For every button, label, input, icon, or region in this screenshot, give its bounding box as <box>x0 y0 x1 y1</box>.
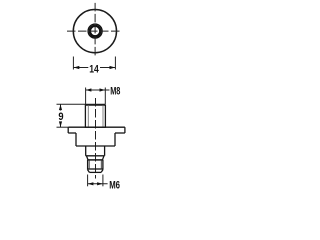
neck left side <box>85 146 87 156</box>
M6 thread section <box>88 160 103 173</box>
dim M6: right arrowhead <box>97 182 103 185</box>
flange body bottom edge <box>76 145 115 147</box>
thread right side <box>102 160 104 170</box>
dim 14: dimension line left segment <box>74 67 89 69</box>
tip bottom edge <box>89 171 101 173</box>
flange plate left side <box>67 127 69 133</box>
tip chamfer left slant <box>88 170 90 173</box>
flange body left side <box>75 133 77 146</box>
dim M8: left extension line <box>85 88 87 105</box>
neck shoulder below flange <box>86 146 105 160</box>
svg-text:M8: M8 <box>110 85 120 97</box>
M6 thread minor line left <box>88 160 90 169</box>
dim 14: left arrowhead <box>74 66 80 69</box>
dim M8: right arrowhead <box>100 88 106 91</box>
flange body right side <box>114 133 116 146</box>
thread left side <box>87 160 89 170</box>
dim 9: dimension line lower segment <box>60 122 62 128</box>
dim 9: dimension line upper segment <box>60 105 62 111</box>
dim 9: bottom extension line <box>57 126 69 128</box>
dim M6: left extension line <box>87 175 89 187</box>
dim 14: left extension line <box>72 57 74 70</box>
dim M6: dimension line with leader <box>88 183 108 185</box>
M8 stud body outline <box>85 105 105 127</box>
svg-text:9: 9 <box>58 111 63 123</box>
top view: flange outer circle <box>73 10 116 53</box>
flange top edge <box>68 126 125 128</box>
dim M8: dimension line with leader to text <box>86 89 110 91</box>
dim M8: left arrowhead <box>86 88 92 91</box>
thread relief line <box>88 168 103 170</box>
M6 thread minor line right <box>100 160 102 169</box>
svg-text:14: 14 <box>89 63 99 75</box>
flange step right <box>115 132 125 134</box>
flange plate right side <box>124 127 126 133</box>
side view: vertical centerline <box>95 98 97 179</box>
dim 14: dimension line right segment <box>100 67 115 69</box>
top view: horizontal centerline <box>67 30 120 32</box>
dim M6: left arrowhead <box>88 182 94 185</box>
top view: vertical centerline <box>94 3 96 58</box>
tip chamfer right slant <box>101 170 103 173</box>
neck bottom edge <box>86 155 105 157</box>
dim 9: down arrowhead <box>59 121 62 127</box>
flange top plate <box>68 127 125 146</box>
thread chamfer left slant <box>86 156 88 160</box>
flange step left <box>68 132 76 134</box>
svg-text:M6: M6 <box>109 179 120 191</box>
thread top edge <box>88 159 103 161</box>
M8 stud thread minor line right <box>102 105 104 127</box>
top view: tapped hole thread circles <box>88 24 102 38</box>
dim M8: right extension line <box>104 88 106 105</box>
dim 9: up arrowhead <box>59 105 62 111</box>
neck right side <box>104 146 106 156</box>
dim 14: right extension line <box>114 57 116 70</box>
M8 stud thread minor line left <box>87 105 89 127</box>
dim 9: top extension line <box>57 103 106 105</box>
dim 14: right arrowhead <box>110 66 116 69</box>
dim M6: right extension line <box>102 175 104 187</box>
thread chamfer right slant <box>103 156 105 160</box>
